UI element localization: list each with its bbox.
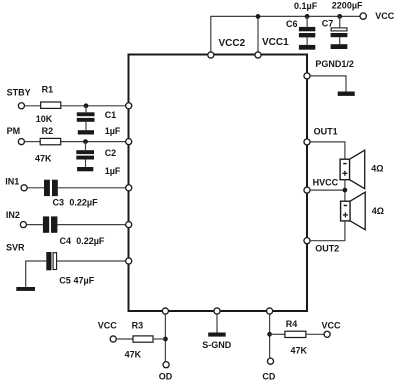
ground (C1) xyxy=(78,130,94,134)
ground (C6) xyxy=(299,45,315,50)
svg-text:4Ω: 4Ω xyxy=(372,206,384,216)
wire OD column xyxy=(164,314,166,361)
resistor R1 xyxy=(41,102,61,108)
svg-text:OD: OD xyxy=(159,371,173,381)
svg-text:OUT2: OUT2 xyxy=(315,244,339,254)
wire VCC to R3 xyxy=(117,338,133,340)
svg-text:C4: C4 xyxy=(60,236,72,246)
resistor R3 xyxy=(133,336,153,342)
svg-text:VCC: VCC xyxy=(322,321,342,331)
wire PM to R2 xyxy=(25,141,40,143)
junction PM/C2 xyxy=(83,139,88,144)
ground (C7) xyxy=(331,44,348,49)
svg-text:47K: 47K xyxy=(291,345,308,355)
wire C3 to IC xyxy=(58,187,128,189)
wire PGND to ground xyxy=(310,76,346,92)
capacitor C4 xyxy=(43,216,58,232)
svg-text:4Ω: 4Ω xyxy=(371,163,383,173)
wire S-GND stub xyxy=(216,314,218,332)
svg-text:0.22µF: 0.22µF xyxy=(76,236,105,246)
wire C5 to IC xyxy=(57,260,128,262)
wire junction to R4 xyxy=(270,333,285,335)
junction VCC1 rail xyxy=(256,14,261,19)
svg-text:PM: PM xyxy=(7,126,21,136)
svg-text:C5: C5 xyxy=(59,275,71,285)
svg-text:R1: R1 xyxy=(42,85,54,95)
svg-text:HVCC: HVCC xyxy=(313,177,339,187)
svg-text:47µF: 47µF xyxy=(74,275,95,285)
wire VCC1 riser xyxy=(257,16,259,55)
wire OUT2 to speaker xyxy=(310,221,345,241)
svg-text:R4: R4 xyxy=(286,319,298,329)
ground (C2) xyxy=(77,167,93,171)
pin OUT1 xyxy=(304,139,310,145)
IC body U1 xyxy=(129,55,308,312)
terminal STBY xyxy=(18,103,24,109)
terminal VCC top xyxy=(360,13,366,19)
terminal CD xyxy=(267,358,273,364)
capacitor C3 xyxy=(44,180,58,196)
wire CD column xyxy=(269,314,271,357)
svg-text:R2: R2 xyxy=(42,126,54,136)
svg-text:PGND1/2: PGND1/2 xyxy=(315,59,354,69)
pin PM IC xyxy=(126,139,132,145)
svg-text:1µF: 1µF xyxy=(105,166,121,176)
svg-text:47K: 47K xyxy=(125,349,142,359)
junction OD/R3 xyxy=(163,337,168,342)
wire STBY to R1 xyxy=(25,105,41,107)
svg-text:2200µF: 2200µF xyxy=(332,1,363,11)
pin VCC1 xyxy=(255,52,261,58)
ground (PGND) xyxy=(338,92,355,96)
wire HVCC to speakers xyxy=(310,189,345,191)
wire SVR to ground xyxy=(26,261,47,287)
wire OUT1 to speaker xyxy=(310,142,345,159)
pin STBY IC xyxy=(126,103,132,109)
svg-text:47K: 47K xyxy=(35,153,52,163)
junction STBY/C1 xyxy=(84,103,89,108)
terminal VCC (R4) xyxy=(324,331,330,337)
svg-text:CD: CD xyxy=(262,371,275,381)
wire R2 to IC xyxy=(61,141,128,143)
junction HVCC xyxy=(343,188,348,193)
svg-text:S-GND: S-GND xyxy=(202,340,232,350)
svg-text:C3: C3 xyxy=(53,198,65,208)
ground (SVR) xyxy=(16,287,35,291)
pin VCC2 xyxy=(208,52,214,58)
speaker LS2 xyxy=(341,192,366,230)
svg-text:STBY: STBY xyxy=(7,87,31,97)
capacitor C6 xyxy=(299,14,315,45)
svg-text:0.1µF: 0.1µF xyxy=(294,1,318,11)
svg-text:C7: C7 xyxy=(322,19,334,29)
svg-text:SVR: SVR xyxy=(6,242,25,252)
svg-text:1µF: 1µF xyxy=(105,126,121,136)
terminal IN1 xyxy=(21,185,27,191)
svg-text:VCC: VCC xyxy=(375,11,395,21)
speaker LS1 xyxy=(340,150,365,189)
svg-text:IN2: IN2 xyxy=(6,210,20,220)
pin IN2 IC xyxy=(126,222,132,228)
svg-text:VCC: VCC xyxy=(98,320,118,330)
junction CD/R4 xyxy=(267,332,272,337)
pin S-GND IC xyxy=(214,308,220,314)
svg-text:10K: 10K xyxy=(36,114,53,124)
svg-text:C6: C6 xyxy=(286,19,298,29)
svg-text:VCC2: VCC2 xyxy=(219,38,246,49)
pin CD IC xyxy=(267,308,273,314)
resistor R2 xyxy=(40,138,61,144)
svg-text:C1: C1 xyxy=(105,110,117,120)
pin HVCC xyxy=(304,187,310,193)
capacitor C2 xyxy=(76,142,94,167)
pin SVR IC xyxy=(126,258,132,264)
pin PGND1/2 xyxy=(304,73,310,79)
terminal VCC (R3) xyxy=(110,336,116,342)
resistor R4 xyxy=(285,331,306,337)
wire R3 to junction xyxy=(153,338,165,340)
svg-text:OUT1: OUT1 xyxy=(314,127,338,137)
svg-text:R3: R3 xyxy=(132,320,144,330)
pin OUT2 xyxy=(304,238,310,244)
terminal OD xyxy=(163,362,169,368)
terminal PM xyxy=(18,139,24,145)
svg-text:IN1: IN1 xyxy=(5,176,19,186)
terminal IN2 xyxy=(20,222,26,228)
svg-text:VCC1: VCC1 xyxy=(262,37,289,48)
capacitor C7 xyxy=(331,14,348,44)
capacitor C1 xyxy=(77,106,95,130)
wire IN1 to C3 xyxy=(28,187,45,189)
wire top rail VCC xyxy=(211,16,360,55)
pin OD IC xyxy=(162,308,168,314)
svg-text:C2: C2 xyxy=(105,148,117,158)
capacitor C5 xyxy=(46,252,56,270)
wire R4 to VCC xyxy=(306,333,324,335)
wire IN2 to C4 xyxy=(27,224,43,226)
wire R1 to IC xyxy=(61,105,128,107)
svg-text:0.22µF: 0.22µF xyxy=(69,198,98,208)
ground S-GND xyxy=(208,333,226,337)
wire C4 to IC xyxy=(57,224,127,226)
wire speaker link xyxy=(344,180,346,202)
pin IN1 IC xyxy=(126,185,132,191)
